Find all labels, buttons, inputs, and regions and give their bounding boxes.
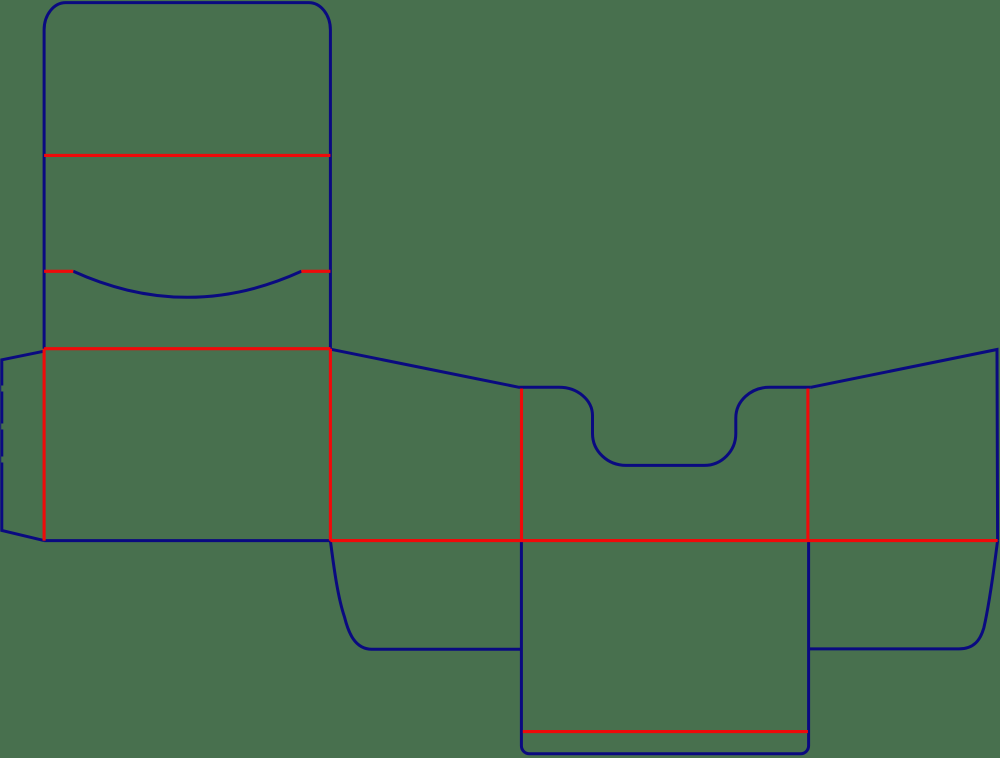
crease: left segment at thumb arc [44, 270, 73, 273]
cut line: slant from front panel into bottom panel top edge with finger notch [330, 349, 810, 465]
crease: long bottom fold line [330, 539, 997, 542]
cut line: right bottom dust flap [809, 541, 998, 649]
crease: left edge of front panel [43, 349, 46, 541]
cut line: lid outer outline (rounded top) [44, 3, 330, 349]
cut line: slant to right back panel and right outer edge [811, 350, 998, 541]
cut line: left glue flap outline [2, 351, 44, 540]
crease: top of front panel [44, 347, 330, 350]
crease: lid fold line [44, 154, 330, 157]
nick marks on glue flap edge [1, 386, 4, 463]
cut line: thumb-hole arc on lid [73, 271, 301, 297]
crease: right edge of front panel [329, 349, 332, 541]
crease: right edge of bottom panel [806, 389, 809, 541]
crease: right segment at thumb arc [301, 270, 330, 273]
cut line: bottom edge of front panel [44, 539, 330, 542]
cut line: bottom tuck panel outline [521, 541, 808, 754]
cut line: left bottom dust flap [330, 541, 521, 650]
crease: left edge of bottom panel [520, 389, 523, 541]
crease: tuck flap fold near bottom [523, 730, 808, 733]
